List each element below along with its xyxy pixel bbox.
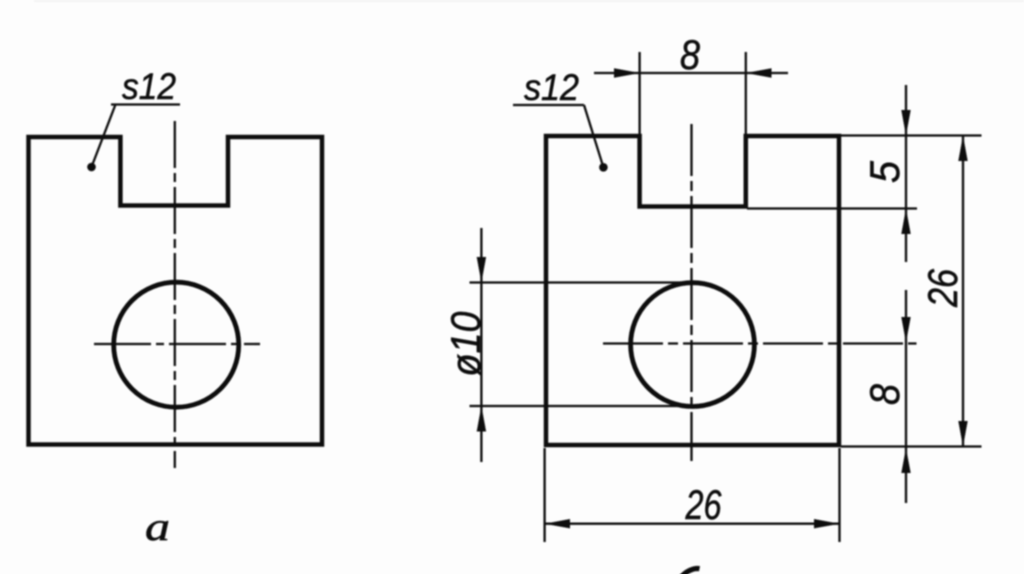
svg-text:26: 26	[685, 481, 722, 528]
extension line hole top tangent	[470, 281, 689, 283]
faint top border artifact	[34, 0, 1024, 2]
s12 underline view b	[513, 104, 584, 106]
svg-text:a: a	[145, 504, 170, 549]
leader dot view a	[87, 163, 96, 172]
svg-text:5: 5	[861, 160, 908, 183]
leader dot view b	[599, 163, 608, 172]
arrowhead top of dim 5	[901, 110, 910, 136]
dimension line 5	[905, 85, 907, 262]
extension line notch left	[638, 52, 640, 134]
dimension line o10	[480, 228, 482, 462]
vertical centerline view a	[174, 121, 176, 468]
svg-text:ø10: ø10	[442, 311, 489, 377]
svg-text:8: 8	[861, 383, 908, 405]
extension line notch right	[745, 52, 747, 134]
extension line hole bottom tangent	[470, 405, 689, 407]
arrowhead right of dim 8	[746, 68, 772, 77]
leader line view b	[584, 105, 603, 167]
arrowhead left of dim 26 bottom	[545, 519, 570, 528]
arrowhead top of dim 26 right	[958, 136, 967, 162]
vertical centerline view b	[690, 124, 692, 461]
extension line bottom right corner	[838, 448, 840, 542]
arrowhead left of dim 8	[614, 68, 640, 77]
dimension line 8 right	[905, 290, 907, 503]
dimension line 8	[594, 72, 788, 74]
svg-text:s12: s12	[524, 67, 579, 108]
svg-text:s12: s12	[122, 66, 176, 107]
horizontal centerline view b	[603, 342, 917, 344]
arrowhead top of o10	[477, 257, 486, 283]
arrowhead top of dim 8 right	[901, 317, 910, 342]
extension line notch bottom right	[747, 207, 917, 209]
dimension line 26 bottom	[545, 523, 840, 525]
arrowhead bottom of dim 8 right	[901, 448, 910, 473]
svg-text:26: 26	[919, 268, 966, 307]
part outline view b	[546, 136, 839, 445]
leader line view a	[92, 105, 116, 168]
svg-text:8: 8	[680, 31, 701, 78]
arrowhead bottom of o10	[477, 406, 486, 432]
extension line bottom right	[841, 445, 982, 447]
hole circle view b	[631, 283, 755, 407]
arrowhead right of dim 26 bottom	[814, 519, 840, 528]
part outline view a	[29, 137, 323, 445]
extension line bottom left corner	[543, 448, 545, 542]
s12 underline view a	[111, 103, 180, 105]
extension line top edge right	[836, 134, 982, 136]
dimension line 26 right	[962, 136, 964, 447]
arrowhead bottom of dim 26 right	[958, 421, 967, 447]
arrowhead bottom of dim 5	[901, 209, 910, 235]
horizontal centerline view a	[94, 343, 260, 345]
hole circle view a	[114, 282, 239, 407]
label b (partial, cut by bottom edge)	[681, 569, 700, 574]
